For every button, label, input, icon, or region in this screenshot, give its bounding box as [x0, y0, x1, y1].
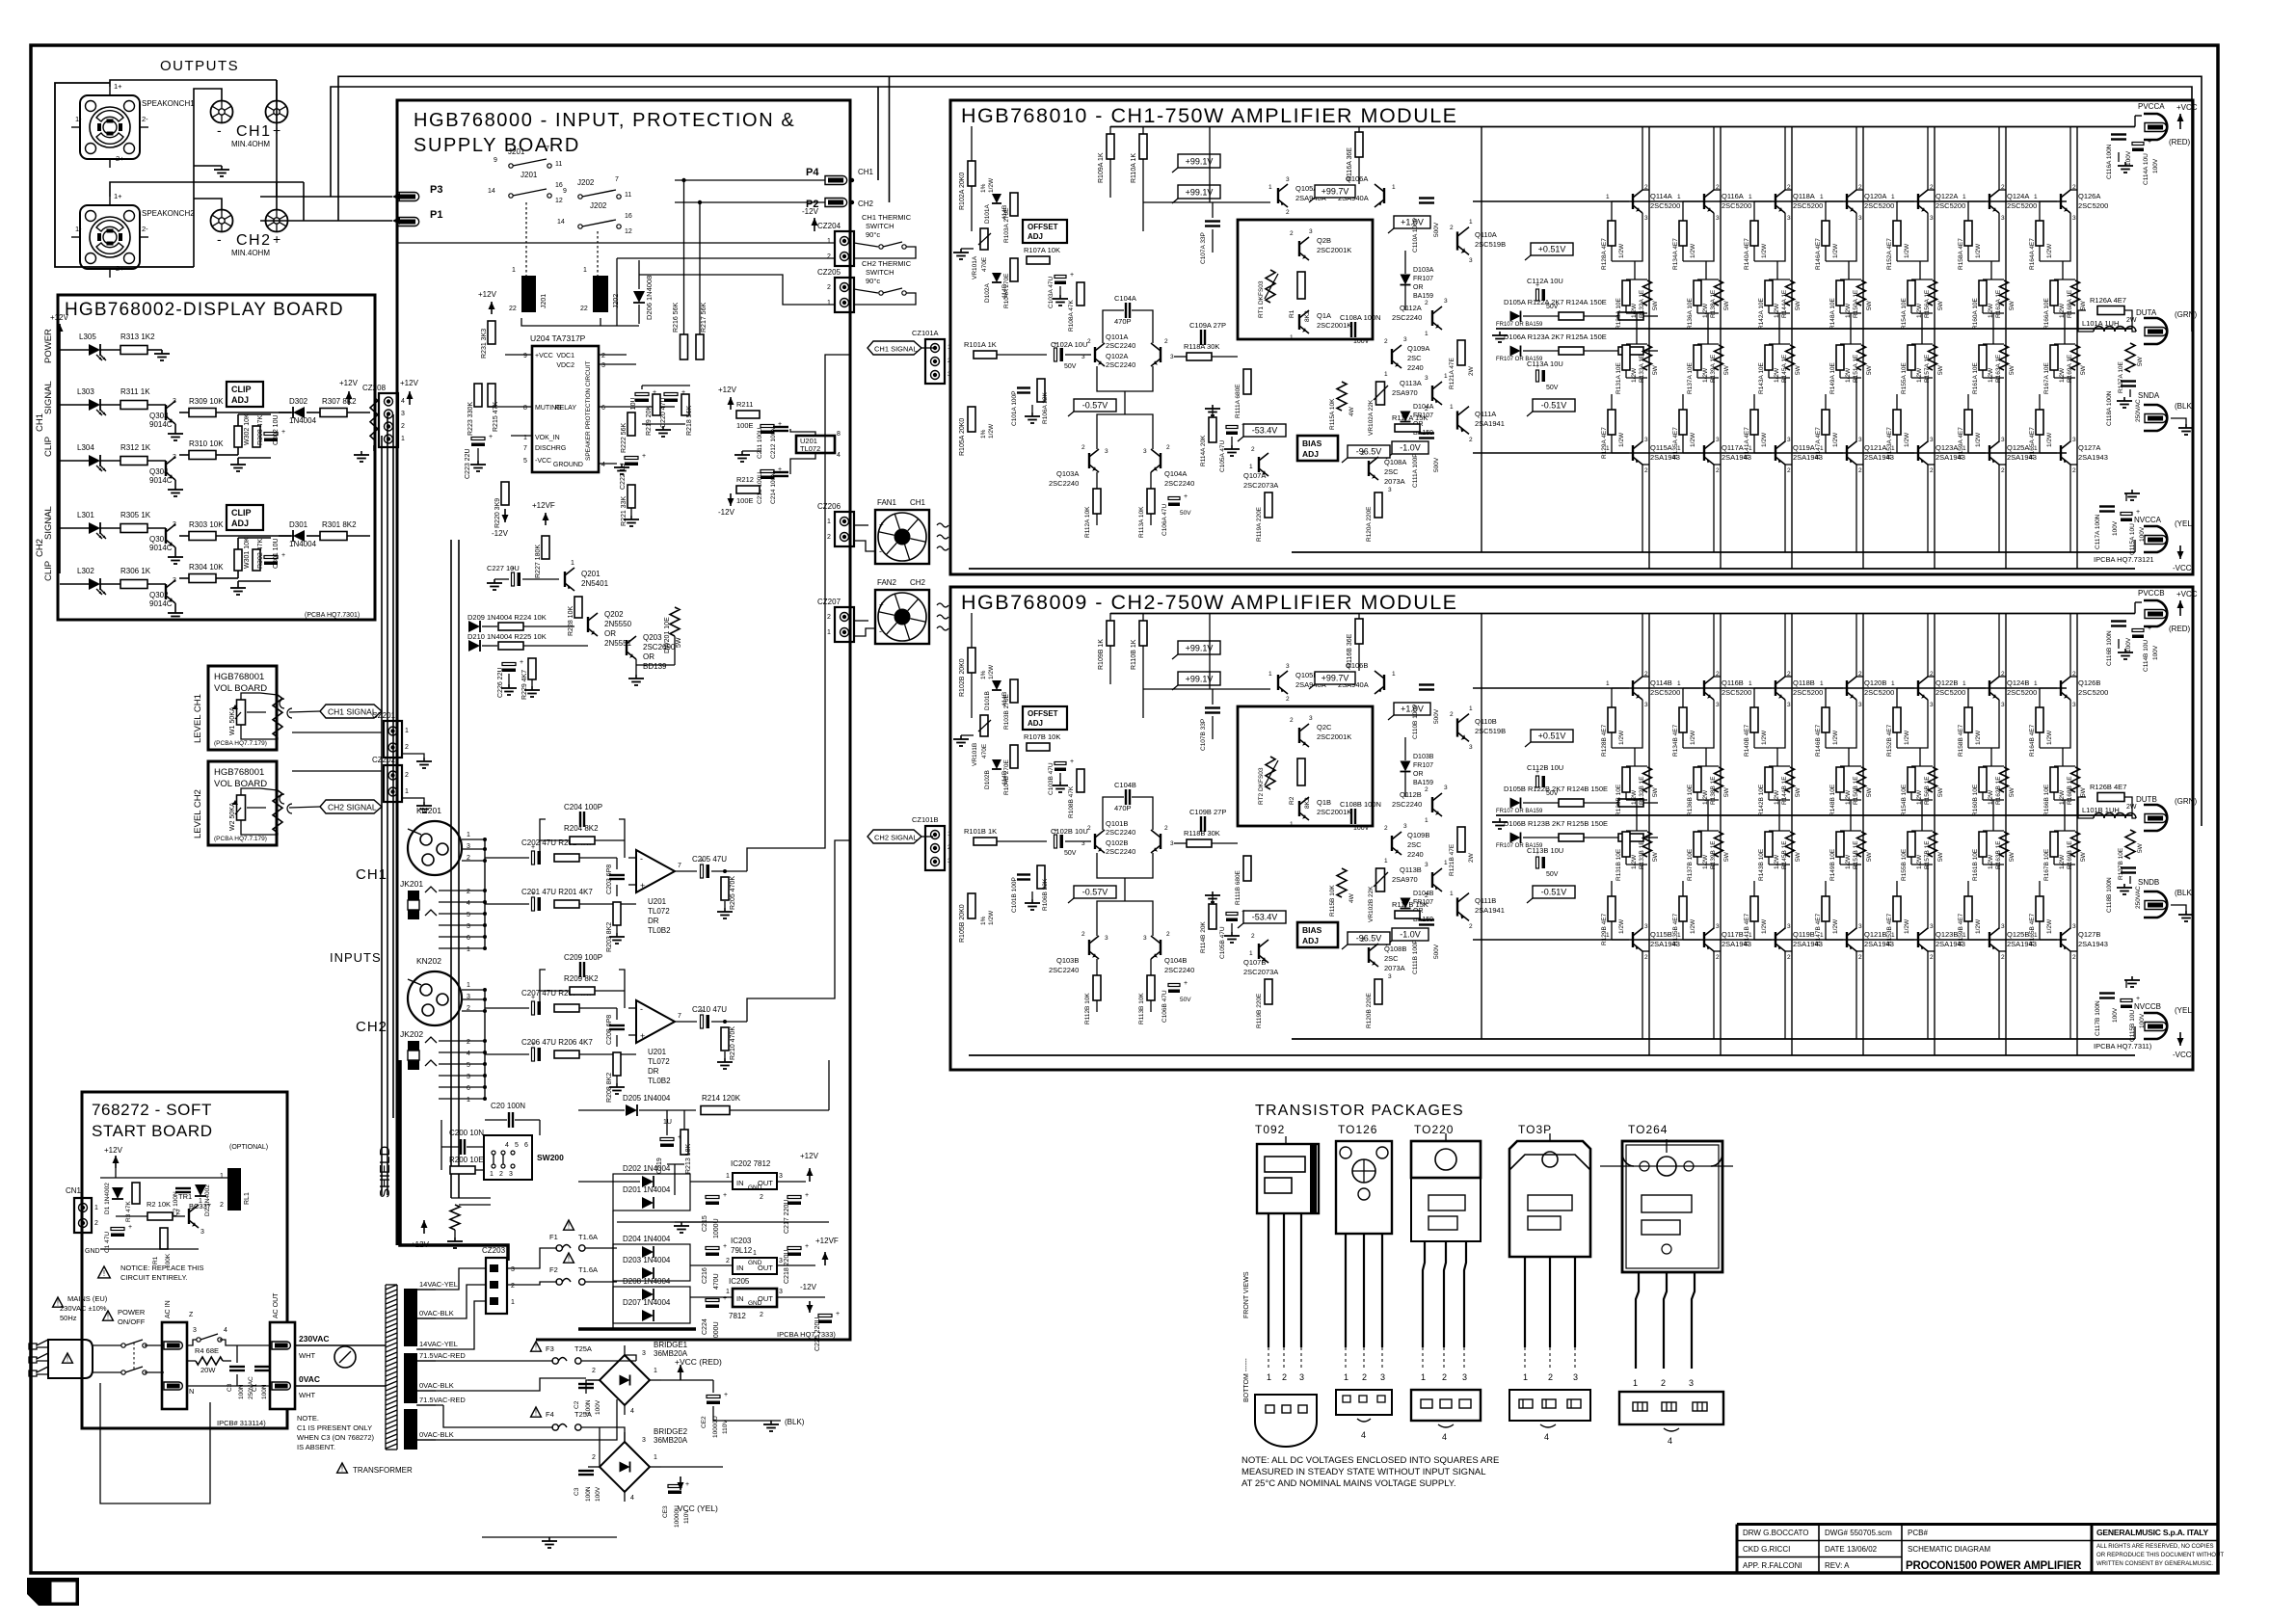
svg-text:3: 3	[1286, 663, 1290, 670]
svg-text:250VAC: 250VAC	[2135, 399, 2142, 422]
svg-text:TL0B2: TL0B2	[648, 926, 671, 935]
svg-text:Q113A: Q113A	[1400, 379, 1422, 387]
resistor R139B 1E 5W	[1715, 832, 1723, 857]
transistor Q108A 2SC2073A	[1368, 461, 1370, 476]
shield network	[450, 1205, 460, 1230]
transistor Q108B 2SC2073A	[1368, 947, 1370, 963]
wire emitter Q119B	[1784, 865, 1786, 929]
svg-text:2SA1941: 2SA1941	[1475, 419, 1505, 428]
svg-text:2: 2	[1858, 467, 1862, 474]
svg-text:Q122B: Q122B	[1936, 678, 1958, 687]
transistor Q101A 2SC2240	[1094, 347, 1096, 362]
svg-text:2: 2	[1361, 937, 1365, 944]
resistor R219 20K	[653, 394, 660, 415]
resistor R135A 4E7	[1679, 410, 1687, 435]
svg-text:D205 1N4004: D205 1N4004	[623, 1094, 671, 1103]
power +12VF label	[824, 1252, 826, 1265]
svg-text:3: 3	[1469, 257, 1473, 264]
svg-text:3: 3	[1644, 437, 1648, 443]
svg-text:1/2W: 1/2W	[1774, 854, 1780, 869]
svg-text:Q1A: Q1A	[1317, 311, 1331, 320]
title block	[1737, 1523, 2218, 1526]
svg-text:+: +	[1535, 282, 1539, 289]
svg-text:2: 2	[1716, 954, 1720, 961]
connector AC IN	[162, 1322, 187, 1409]
svg-text:FRONT VIEWS: FRONT VIEWS	[1243, 1271, 1250, 1318]
svg-text:1: 1	[1891, 194, 1895, 200]
op-amp U201 KN202	[636, 1000, 675, 1043]
wire DUTA top bus	[331, 87, 2192, 332]
callout -1.0V	[1392, 441, 1428, 454]
power switch	[121, 1344, 125, 1347]
svg-text:R2 10K: R2 10K	[147, 1200, 171, 1209]
transistor Q103B 2SC2240	[1088, 940, 1090, 955]
svg-text:9014C: 9014C	[149, 420, 173, 429]
svg-text:7812: 7812	[729, 1312, 746, 1320]
resistor R151A 1E 5W	[1857, 345, 1866, 370]
resistor R105A 20K0	[968, 407, 975, 432]
resistor R135B 4E7	[1679, 896, 1687, 921]
svg-text:5W: 5W	[2009, 300, 2016, 310]
capacitor C110B 100P	[1419, 683, 1434, 685]
resistor R102B 20K0	[968, 648, 975, 673]
svg-text:1: 1	[1820, 445, 1824, 452]
svg-text:VR102B 22K: VR102B 22K	[1368, 886, 1375, 922]
svg-text:R214 120K: R214 120K	[702, 1094, 741, 1103]
ground CZ201	[402, 754, 424, 758]
fuse F2 T1.6A	[564, 1253, 574, 1263]
svg-text:4W: 4W	[1348, 406, 1355, 416]
svg-text:D210 1N4004 R225 10K: D210 1N4004 R225 10K	[467, 632, 547, 641]
svg-text:2SC5200: 2SC5200	[2078, 201, 2108, 210]
resistor R106A 22K	[1037, 379, 1045, 402]
svg-text:414B: 414B	[1001, 771, 1008, 785]
svg-text:CZ207: CZ207	[817, 598, 841, 606]
fan FAN2 CH2	[875, 590, 929, 644]
svg-text:2SC5200: 2SC5200	[1864, 688, 1894, 697]
svg-text:3: 3	[1716, 702, 1720, 708]
capacitor C301 10U	[264, 556, 278, 559]
svg-text:R160B 10E: R160B 10E	[1972, 784, 1979, 816]
svg-text:C105B 47U: C105B 47U	[1219, 926, 1226, 959]
svg-text:2SC2001K: 2SC2001K	[1317, 321, 1351, 330]
power +12V IC202	[809, 1168, 811, 1182]
svg-text:2: 2	[1716, 467, 1720, 474]
svg-text:!: !	[568, 1255, 570, 1264]
column bus 4	[1862, 127, 1864, 570]
svg-text:R223 330K: R223 330K	[467, 402, 474, 436]
trimmer VR101B 470E	[980, 715, 988, 736]
rail output	[1496, 328, 2132, 330]
transistor Q119A 2SA1943	[1775, 445, 1776, 461]
transistor Q113A 2SA970	[1431, 386, 1433, 401]
resistor R218 56K	[681, 394, 689, 415]
wire emitter Q115A	[1642, 378, 1643, 442]
svg-text:R108A 47K: R108A 47K	[1068, 299, 1075, 332]
svg-text:R213 18K: R213 18K	[685, 1144, 692, 1174]
svg-text:SWITCH: SWITCH	[866, 222, 894, 230]
resistor R167B 10E	[2064, 815, 2066, 831]
resistor R141B 4E7	[1750, 896, 1758, 921]
svg-text:Q102A: Q102A	[1106, 352, 1128, 360]
svg-text:BOTTOM ------: BOTTOM ------	[1243, 1358, 1250, 1402]
svg-text:5W: 5W	[1866, 364, 1873, 375]
svg-text:2: 2	[1425, 786, 1428, 793]
transistor Q104B 2SC2240	[1160, 940, 1161, 955]
label MAINS EU	[53, 1297, 64, 1307]
svg-text:R158A 4E7: R158A 4E7	[1958, 238, 1964, 270]
resistor R144A 1E 5W	[1786, 280, 1795, 306]
svg-text:Q107A: Q107A	[1243, 471, 1266, 480]
resistor R115A 10K	[1337, 382, 1347, 411]
transistor Q103A 2SC2240	[1088, 453, 1090, 468]
resistor divider CH2	[273, 790, 282, 833]
svg-text:-12V: -12V	[492, 529, 509, 538]
svg-text:3: 3	[1716, 923, 1720, 930]
capacitor C101A 100P	[1017, 386, 1030, 388]
svg-text:!: !	[568, 1222, 570, 1231]
transformer label	[337, 1463, 348, 1473]
svg-text:F2: F2	[549, 1265, 558, 1274]
svg-text:R148B 10E: R148B 10E	[1829, 784, 1836, 816]
svg-text:3: 3	[1858, 923, 1862, 930]
svg-text:+: +	[1535, 769, 1539, 776]
svg-text:3: 3	[779, 1258, 783, 1264]
resistor R144B 1E 5W	[1786, 767, 1795, 792]
capacitor C216 470U	[706, 1247, 719, 1250]
svg-text:C226 22U: C226 22U	[497, 667, 504, 698]
svg-text:+: +	[640, 881, 645, 891]
svg-text:+: +	[1054, 828, 1057, 835]
resistor R3 47K	[132, 1183, 140, 1204]
svg-text:R204 8K2: R204 8K2	[564, 824, 599, 833]
ground driver mid	[1499, 332, 1501, 335]
svg-text:PCB#: PCB#	[1908, 1529, 1928, 1537]
svg-text:+VCC: +VCC	[535, 353, 553, 359]
svg-text:Q203: Q203	[643, 633, 662, 642]
svg-text:C110A 100P: C110A 100P	[1412, 218, 1419, 253]
svg-text:1: 1	[1677, 445, 1681, 452]
resistor R104A 270E	[1010, 258, 1018, 281]
svg-text:R2: R2	[1289, 796, 1295, 805]
wire emitter Q121A	[1855, 378, 1857, 442]
svg-text:+VCC: +VCC	[2176, 103, 2198, 112]
svg-text:L304: L304	[77, 443, 94, 452]
resistor R108B 47K	[1077, 769, 1084, 792]
svg-text:5W: 5W	[1866, 786, 1873, 797]
transistor Q112A 2SC2240	[1431, 310, 1433, 326]
svg-text:C205 47U: C205 47U	[692, 855, 727, 864]
svg-text:4: 4	[630, 1408, 634, 1415]
svg-text:8: 8	[523, 405, 527, 412]
svg-text:DISCHRG: DISCHRG	[535, 445, 566, 452]
svg-text:R309 10K: R309 10K	[189, 397, 224, 406]
thermistor RT1 DKFS03	[1266, 270, 1275, 303]
svg-text:IN: IN	[736, 1264, 744, 1272]
svg-text:1: 1	[1606, 194, 1610, 200]
svg-text:R154A 10E: R154A 10E	[1901, 297, 1908, 330]
potentiometer W1 50KA	[237, 700, 246, 725]
svg-text:3: 3	[1787, 215, 1791, 222]
svg-text:+99.7V: +99.7V	[1322, 674, 1349, 683]
svg-text:470P: 470P	[1114, 804, 1132, 812]
connector CZ202	[384, 765, 402, 802]
BIAS ADJ box	[1297, 922, 1338, 947]
svg-text:PVCCA: PVCCA	[2138, 102, 2165, 111]
svg-text:!: !	[57, 1299, 59, 1308]
svg-text:R109A 1K: R109A 1K	[1098, 152, 1105, 183]
svg-text:R129B 4E7: R129B 4E7	[1601, 913, 1608, 945]
wire opamp2 out to CH2 SIGNAL	[747, 840, 850, 1022]
svg-text:3: 3	[1930, 702, 1934, 708]
svg-text:2: 2	[1469, 923, 1473, 930]
resistor R216 56K	[681, 334, 688, 359]
svg-text:F4: F4	[546, 1410, 554, 1419]
svg-text:Q123B: Q123B	[1936, 930, 1958, 939]
svg-text:R147A 4E7: R147A 4E7	[1815, 427, 1822, 459]
svg-text:50V: 50V	[1064, 850, 1077, 857]
svg-text:GND: GND	[748, 1260, 762, 1266]
svg-text:CH1 SIGNAL: CH1 SIGNAL	[328, 707, 377, 717]
svg-text:1: 1	[1891, 680, 1895, 687]
svg-text:R116B 36E: R116B 36E	[1347, 633, 1353, 668]
svg-text:Q124A: Q124A	[2007, 192, 2029, 200]
svg-text:414B: 414B	[1001, 284, 1008, 299]
capacitor C114A 10U	[2132, 143, 2144, 146]
resistor R132A 1E 5W	[1643, 280, 1652, 306]
svg-text:Q114B: Q114B	[1650, 678, 1672, 687]
transistor Q105A 2SA940A	[1277, 188, 1279, 203]
svg-text:D202 1N4004: D202 1N4004	[623, 1164, 671, 1173]
svg-text:+12V: +12V	[104, 1146, 123, 1155]
svg-text:100V: 100V	[2112, 520, 2119, 536]
resistor R104B 270E	[1010, 745, 1018, 768]
resistor R145A 1E 5W	[1786, 345, 1795, 370]
svg-text:IN: IN	[736, 1179, 744, 1187]
wire emitter Q123B	[1927, 865, 1929, 929]
svg-text:1/2W: 1/2W	[1845, 367, 1852, 383]
svg-text:R121A 47E: R121A 47E	[1449, 357, 1455, 389]
transistor Q111A 2SA1941	[1456, 411, 1458, 429]
svg-text:1: 1	[1425, 817, 1428, 824]
svg-text:TL072: TL072	[800, 444, 820, 453]
svg-text:2: 2	[1164, 825, 1168, 832]
svg-text:1: 1	[511, 1299, 515, 1306]
resistor R224 10K	[498, 623, 523, 630]
svg-text:2: 2	[1087, 825, 1091, 832]
svg-text:1: 1	[1268, 671, 1272, 678]
svg-text:NVCCA: NVCCA	[2134, 516, 2162, 524]
svg-text:3: 3	[601, 362, 605, 369]
svg-text:5W: 5W	[2080, 786, 2087, 797]
svg-text:2SC: 2SC	[1407, 840, 1422, 849]
capacitor C1 250VAC	[254, 1366, 270, 1368]
svg-text:1/2W: 1/2W	[1761, 730, 1768, 745]
resistor R149A 10E	[1850, 329, 1852, 344]
svg-text:R113B 10K: R113B 10K	[1138, 993, 1145, 1024]
svg-text:JK201: JK201	[400, 879, 423, 889]
wire emitter Q126B	[2040, 700, 2070, 748]
svg-text:-96.5V: -96.5V	[1356, 934, 1382, 944]
svg-text:1-: 1-	[75, 115, 82, 123]
resistor R217 56K	[696, 334, 704, 359]
svg-text:4: 4	[467, 900, 470, 907]
svg-text:CN1: CN1	[66, 1186, 82, 1195]
wire bridge nets	[625, 1355, 636, 1361]
svg-text:BRIDGE2: BRIDGE2	[654, 1427, 688, 1436]
transistor Q115B 2SA1943	[1632, 932, 1634, 947]
ground Q303	[174, 424, 176, 430]
svg-text:1: 1	[1677, 680, 1681, 687]
svg-text:JK202: JK202	[400, 1029, 423, 1039]
svg-text:R215 47K: R215 47K	[493, 402, 499, 432]
svg-text:1: 1	[1633, 1378, 1638, 1388]
svg-text:D207 1N4004: D207 1N4004	[623, 1298, 671, 1307]
ground W302 10K	[237, 458, 239, 461]
svg-text:R149A 10E: R149A 10E	[1829, 361, 1836, 394]
svg-text:6: 6	[467, 935, 470, 942]
svg-text:Q115A: Q115A	[1650, 443, 1672, 452]
svg-text:-12V: -12V	[802, 207, 819, 216]
svg-text:R159B 4E7: R159B 4E7	[1958, 913, 1964, 945]
svg-text:1: 1	[1677, 194, 1681, 200]
svg-text:START BOARD: START BOARD	[92, 1122, 213, 1140]
svg-text:OR: OR	[604, 629, 616, 638]
svg-text:Q121B: Q121B	[1864, 930, 1886, 939]
svg-text:VR101A: VR101A	[972, 255, 978, 279]
svg-text:BD139: BD139	[643, 662, 667, 671]
relay RL1	[227, 1168, 241, 1211]
svg-text:1: 1	[1469, 219, 1473, 226]
svg-text:R301 8K2: R301 8K2	[322, 520, 357, 529]
svg-text:1: 1	[1820, 932, 1824, 939]
svg-text:D2 1N4002: D2 1N4002	[204, 1184, 211, 1216]
svg-text:1: 1	[490, 1171, 494, 1178]
svg-text:2: 2	[1361, 450, 1365, 457]
resistor R120B 220E	[1375, 979, 1382, 1004]
svg-text:14: 14	[488, 188, 495, 195]
svg-text:C302 10U: C302 10U	[273, 414, 280, 445]
fuse F4 T25A	[531, 1407, 542, 1417]
svg-text:MIN.4OHM: MIN.4OHM	[231, 249, 270, 257]
connector SNDB	[2144, 891, 2167, 918]
resistor R127A 10E	[2125, 343, 2135, 372]
svg-text:R231 3K3: R231 3K3	[481, 329, 488, 359]
resistor R156B 1E 5W	[1929, 767, 1937, 792]
svg-text:1: 1	[1820, 680, 1824, 687]
svg-text:2SC2240: 2SC2240	[1106, 341, 1135, 350]
svg-text:C107A 33P: C107A 33P	[1200, 232, 1207, 264]
resistor R134A 4E7	[1683, 200, 1700, 202]
resistor R110A 1K	[1139, 134, 1147, 159]
callout +99.1V b	[1178, 185, 1220, 199]
resistor R112B 10K	[1093, 975, 1101, 1000]
resistor R202 4K7	[554, 854, 579, 862]
svg-text:14VAC-YEL: 14VAC-YEL	[419, 1340, 458, 1348]
wire emitter Q121B	[1855, 865, 1857, 929]
svg-text:W302 10K: W302 10K	[244, 413, 251, 445]
svg-text:1: 1	[1469, 705, 1473, 712]
svg-text:R135B 4E7: R135B 4E7	[1672, 913, 1679, 945]
svg-text:+VCC (RED): +VCC (RED)	[675, 1357, 722, 1367]
svg-text:2SC2240: 2SC2240	[1392, 800, 1422, 809]
OFFSET ADJ box	[1023, 220, 1067, 243]
svg-text:R304 10K: R304 10K	[189, 563, 224, 572]
resistor R161B 10E	[1992, 815, 1994, 831]
svg-text:1/2W: 1/2W	[1631, 854, 1638, 869]
svg-text:Q303: Q303	[149, 412, 169, 420]
svg-text:C106B 47U: C106B 47U	[1161, 990, 1168, 1023]
wire emitter Q122A	[1897, 213, 1928, 261]
transistor Q1 2SC2001K	[1298, 801, 1300, 816]
LED L301	[60, 527, 89, 529]
svg-text:2SC5200: 2SC5200	[1722, 688, 1751, 697]
svg-text:2: 2	[1362, 1372, 1367, 1382]
power +12V CZ208 right	[409, 391, 411, 405]
resistor R206 4K7	[554, 1051, 579, 1058]
svg-text:1/2W: 1/2W	[1631, 367, 1638, 383]
svg-text:3: 3	[193, 1327, 197, 1334]
svg-text:2: 2	[1548, 1372, 1553, 1382]
package TO220 bottom view	[1411, 1390, 1481, 1421]
resistor R140B 4E7	[1754, 687, 1772, 689]
svg-text:2SC5200: 2SC5200	[1936, 201, 1965, 210]
IC202 7812 regulator	[733, 1173, 777, 1189]
svg-text:APP. R.FALCONI: APP. R.FALCONI	[1743, 1561, 1802, 1570]
diode D103A FR107	[1401, 275, 1411, 285]
wire 0VAC-BLK rails	[416, 1378, 586, 1391]
transistor Q109A 2SC2240	[1391, 349, 1393, 364]
svg-text:R159A 4E7: R159A 4E7	[1958, 427, 1964, 459]
svg-text:BA159: BA159	[1413, 780, 1433, 786]
svg-text:1/2W: 1/2W	[1690, 730, 1696, 745]
svg-text:2SC2001K: 2SC2001K	[1317, 808, 1351, 816]
svg-text:1: 1	[94, 1205, 98, 1211]
svg-text:+99.1V: +99.1V	[1186, 644, 1214, 653]
capacitor C215 1000U	[706, 1196, 719, 1199]
wire mains earth run	[100, 1383, 210, 1503]
callout +99.7V	[1315, 185, 1355, 198]
callout +1.0V	[1394, 216, 1430, 228]
svg-text:2: 2	[467, 1039, 470, 1046]
connector CZ208	[379, 393, 398, 447]
callout +99.1V b	[1178, 672, 1220, 685]
svg-text:9014C: 9014C	[149, 599, 173, 608]
transistor Q105B 2SA940A	[1277, 675, 1279, 690]
svg-text:R112A 10K: R112A 10K	[1084, 506, 1091, 538]
svg-text:2: 2	[1290, 230, 1294, 237]
svg-text:PROCON1500 POWER AMPLIFIER: PROCON1500 POWER AMPLIFIER	[1906, 1560, 2082, 1572]
svg-text:+: +	[700, 858, 704, 865]
svg-text:1%: 1%	[980, 183, 987, 193]
svg-text:R221 33K: R221 33K	[621, 496, 627, 526]
capacitor C105A 47U	[1226, 426, 1238, 429]
transistor Q301 9014C	[147, 527, 166, 529]
svg-text:VR101B: VR101B	[972, 743, 978, 766]
svg-text:3: 3	[1930, 437, 1934, 443]
connector CZ206	[835, 512, 854, 546]
svg-text:SNDB: SNDB	[2138, 878, 2159, 887]
transformer primary winding	[386, 1285, 397, 1290]
svg-text:RL1: RL1	[244, 1192, 251, 1205]
svg-text:2SC2240: 2SC2240	[1049, 966, 1079, 974]
svg-text:2: 2	[1087, 338, 1091, 345]
trimmer VR101A 470E	[980, 228, 988, 250]
trimmer VR102B 22K	[1376, 868, 1385, 891]
svg-text:OR: OR	[1413, 771, 1424, 778]
wire emitter Q120A	[1826, 213, 1856, 261]
svg-text:2: 2	[1251, 446, 1255, 453]
